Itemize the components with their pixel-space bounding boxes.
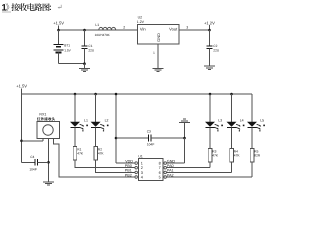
inductor L1: [99, 27, 116, 30]
net label PB2: [125, 173, 132, 177]
svg-text:PB2: PB2: [125, 173, 132, 177]
svg-text:L1: L1: [84, 118, 88, 122]
svg-text:47K: 47K: [234, 154, 241, 158]
capacitor C4: [22, 159, 49, 166]
svg-text:Vin: Vin: [140, 26, 146, 31]
svg-text:L4: L4: [240, 118, 244, 122]
svg-text:104P: 104P: [147, 143, 154, 147]
svg-text:U1: U1: [138, 155, 142, 159]
node junction C4 to gnd line: [47, 161, 50, 164]
battery BT1: [54, 30, 64, 64]
pin number 3 on U2 Vout: [186, 26, 188, 30]
title 接收电路图 heading: [2, 2, 51, 12]
svg-text:+1.5V: +1.5V: [53, 21, 64, 26]
wire left rail down: [21, 94, 23, 162]
node junction RX1 vcc stub: [20, 140, 23, 143]
capacitor C3: [116, 135, 185, 142]
power net +1.5V (top left): [53, 21, 64, 30]
LED L2: [91, 94, 109, 146]
node junction at battery top: [57, 29, 60, 32]
svg-text:L3: L3: [218, 118, 222, 122]
net label PA2: [167, 173, 174, 177]
svg-text:RX1: RX1: [39, 112, 46, 116]
LED L5: [247, 94, 265, 149]
U2 pin name Vout: [169, 26, 178, 31]
svg-text:3: 3: [141, 171, 143, 175]
net label PB0: [125, 164, 132, 168]
wire battery bottom to ground node: [59, 63, 85, 65]
wire VDD riser: [116, 94, 135, 163]
node junction rail at L1: [74, 93, 77, 96]
svg-text:VDD: VDD: [125, 159, 133, 163]
inductor L1 label: [95, 23, 111, 37]
svg-text:L1: L1: [95, 23, 99, 27]
capacitor C2: [206, 30, 212, 66]
resistor R4: [230, 149, 234, 163]
capacitor C4 label: [29, 155, 36, 171]
wire R1 to U1 PB0: [75, 160, 135, 168]
svg-text:47K: 47K: [212, 154, 219, 158]
svg-text:4: 4: [141, 176, 143, 180]
resistor R5 label: [254, 150, 261, 158]
wire bottom power rail: [22, 93, 253, 95]
node junction at C2 top: [208, 29, 211, 32]
wire RX1 gnd pin down: [48, 138, 50, 181]
net label PA1: [167, 169, 174, 173]
U1 designator label: [138, 155, 142, 159]
LED L4: [227, 94, 245, 149]
wire R5 to U1 PA2: [167, 162, 253, 177]
node junction battery/C1 ground: [83, 62, 86, 65]
net label PA0: [167, 164, 174, 168]
resistor R3: [208, 149, 212, 163]
ground below RX1: [43, 182, 54, 185]
wire R4 to U1 PA1: [167, 162, 232, 172]
svg-text:U2: U2: [138, 16, 143, 20]
title underline mark: [2, 11, 11, 13]
U2 GND pin number 1: [153, 51, 155, 55]
wire U1 GND pin riser: [167, 138, 185, 163]
ground below U2: [152, 68, 163, 71]
wire top rail battery to U2: [59, 29, 138, 31]
node junction rail at L4: [230, 93, 233, 96]
RX1 chinese label: [37, 117, 55, 120]
capacitor C3 label: [147, 129, 155, 146]
wire RX1 vcc stub: [22, 138, 43, 140]
capacitor C1 label: [88, 44, 95, 52]
svg-text:C3: C3: [147, 129, 151, 133]
U2 GND pin wire: [157, 44, 159, 68]
svg-text:Vout: Vout: [169, 26, 178, 31]
U2 designator label: [137, 16, 145, 24]
svg-text:6: 6: [159, 171, 161, 175]
U1 right pins 8-5: [159, 162, 167, 180]
node junction at C1 top: [83, 29, 86, 32]
U1 left pins 1-4: [135, 162, 143, 180]
svg-text:2: 2: [123, 26, 125, 30]
resistor R5: [250, 149, 254, 163]
svg-text:5: 5: [159, 176, 161, 180]
paragraph return arrow: [58, 5, 62, 9]
resistor R4 label: [234, 150, 241, 158]
LED L3 label: [218, 118, 222, 122]
resistor R3 label: [212, 150, 219, 158]
U2 pin name GND rotated: [156, 33, 161, 42]
wire R3 to U1 PA0: [167, 162, 211, 168]
svg-text:BT1: BT1: [64, 43, 70, 47]
resistor R2: [94, 146, 98, 160]
LED L2 label: [105, 118, 109, 122]
resistor R1: [73, 146, 77, 160]
svg-text:1.5V: 1.5V: [64, 48, 71, 52]
ground below C1: [79, 64, 90, 72]
capacitor C2 label: [213, 44, 220, 52]
pin number 2 on U2 Vin: [123, 26, 125, 30]
svg-text:3: 3: [186, 26, 188, 30]
svg-text:104P: 104P: [29, 167, 36, 171]
LED L5 label: [260, 118, 264, 122]
wire rail corner to L5: [0, 0, 1, 1]
svg-text:47K: 47K: [98, 152, 105, 156]
svg-text:10UH470K: 10UH470K: [95, 33, 111, 37]
svg-text:GND: GND: [167, 159, 176, 163]
svg-text:22U: 22U: [88, 48, 95, 52]
resistor R2 label: [98, 148, 105, 156]
resistor R1 label: [77, 148, 84, 156]
svg-text:L2: L2: [105, 118, 109, 122]
ground above C3 (inverted): [179, 119, 190, 138]
LED L1 label: [84, 118, 88, 122]
svg-text:+1.5V: +1.5V: [16, 84, 27, 89]
LED L3: [205, 94, 223, 149]
op-amp U2 regulator box: [137, 25, 178, 44]
U2 pin name Vin: [140, 26, 146, 31]
wire U2 Vout to +1.2V node: [179, 29, 210, 31]
LED L1: [70, 94, 88, 146]
node junction C3 left: [115, 137, 118, 140]
svg-text:GND: GND: [156, 33, 161, 42]
svg-text:1.2V: 1.2V: [137, 20, 145, 24]
ground below C2: [204, 66, 215, 69]
svg-text:PB0: PB0: [125, 164, 132, 168]
net label VDD: [125, 159, 133, 163]
svg-text:PA0: PA0: [167, 164, 174, 168]
svg-text:7: 7: [159, 166, 161, 170]
net label PB1: [125, 169, 132, 173]
svg-text:+1.2V: +1.2V: [204, 21, 215, 26]
node junction rail at L3: [209, 93, 212, 96]
svg-text:82R: 82R: [254, 154, 261, 158]
capacitor C1: [81, 30, 87, 64]
battery BT1 label: [64, 43, 71, 52]
node junction rail at L2: [94, 93, 97, 96]
svg-text:PB1: PB1: [125, 169, 132, 173]
svg-text:47K: 47K: [77, 152, 84, 156]
svg-text:8: 8: [159, 162, 161, 166]
LED L4 label: [240, 118, 244, 122]
svg-text:L5: L5: [260, 118, 264, 122]
svg-text:PA2: PA2: [167, 173, 174, 177]
svg-text:C4: C4: [30, 155, 34, 159]
RX1 designator label: [39, 112, 46, 116]
svg-text:22U: 22U: [213, 48, 220, 52]
photoreceiver RX1 box: [37, 121, 60, 138]
wire RX1 out to U1 PB2: [54, 138, 136, 177]
power net +1.5V (bottom rail): [16, 84, 27, 94]
op-amp U1 microcontroller box: [139, 159, 163, 181]
wire R2 to U1 PB1: [96, 160, 135, 173]
svg-text:1: 1: [141, 162, 143, 166]
svg-text:PA1: PA1: [167, 169, 174, 173]
node junction rail at VDD riser: [115, 93, 118, 96]
net label GND: [167, 159, 176, 163]
svg-text:1: 1: [153, 51, 155, 55]
power net +1.2V: [204, 21, 215, 31]
node junction C3 right gnd: [183, 137, 186, 140]
svg-text:2: 2: [141, 166, 143, 170]
